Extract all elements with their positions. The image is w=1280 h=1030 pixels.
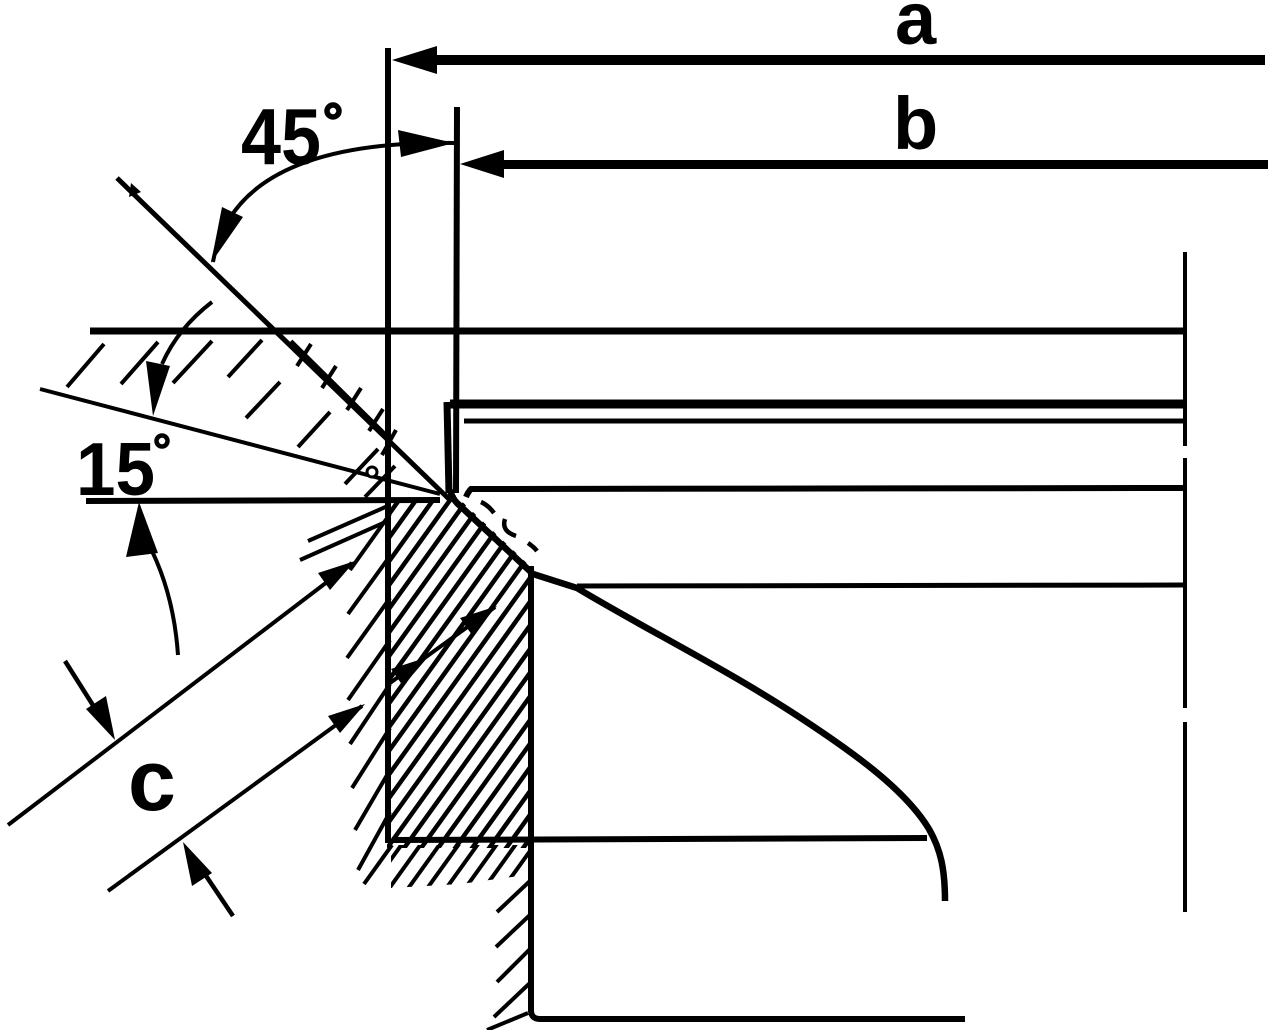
seat insert top second line (464, 419, 1183, 424)
45-degree angle arc (211, 130, 454, 263)
45-degree strip hatch ticks (297, 344, 396, 455)
bore wall vertical line (528, 566, 534, 1012)
valve second line (577, 585, 1183, 586)
valve seat face and head curve (450, 490, 945, 901)
svg-text:c: c (128, 733, 176, 829)
dimension line b (horizontal shaft with left arrowhead) (460, 150, 1268, 178)
center line (dash-dot segments) (1183, 252, 1187, 912)
cutter direction line in hatch with two arrowheads (390, 606, 497, 686)
valve bottom line (392, 838, 927, 840)
svg-text:b: b (893, 82, 938, 165)
45-degree seat face second edge (291, 341, 388, 437)
horizontal reference line at seat (86, 500, 440, 501)
wedge hatch strokes (67, 340, 395, 497)
old seat dashed mark 1 (481, 502, 494, 513)
15-degree cut line (40, 389, 440, 494)
small circle marker (367, 467, 377, 477)
extension line 1 (valve axis vertical) (385, 48, 391, 843)
old seat dashed mark 2 (504, 519, 516, 536)
width arrow lower for c (183, 842, 233, 916)
15-degree angle arc lower (126, 502, 178, 655)
seat insert left vertical edge (447, 402, 449, 493)
cutter band lower line with arrowhead (108, 704, 365, 891)
svg-text:15: 15 (76, 427, 155, 511)
extension line 2 (seat edge vertical) (456, 107, 457, 493)
svg-text:a: a (895, 0, 937, 60)
45-degree seat line (117, 178, 450, 500)
dimension line a (horizontal shaft with left arrowhead) (392, 46, 1265, 74)
svg-text:45: 45 (241, 92, 321, 181)
old seat dashed mark 3 (528, 543, 537, 551)
width arrow upper for c (65, 661, 115, 740)
bottom port line with corner (531, 1010, 965, 1019)
cutter band upper line with arrowhead (8, 561, 355, 825)
seat insert top thick line (450, 400, 1185, 409)
hatch left ragged extension (300, 505, 392, 884)
valve top line (466, 488, 1185, 497)
main hatch block (40, 450, 928, 1000)
hatch strokes along bore wall (487, 880, 531, 1030)
hatch below valve line (fringe) (290, 450, 818, 1000)
top surface line of head (90, 328, 1185, 335)
15-degree angle arc upper (146, 302, 212, 416)
